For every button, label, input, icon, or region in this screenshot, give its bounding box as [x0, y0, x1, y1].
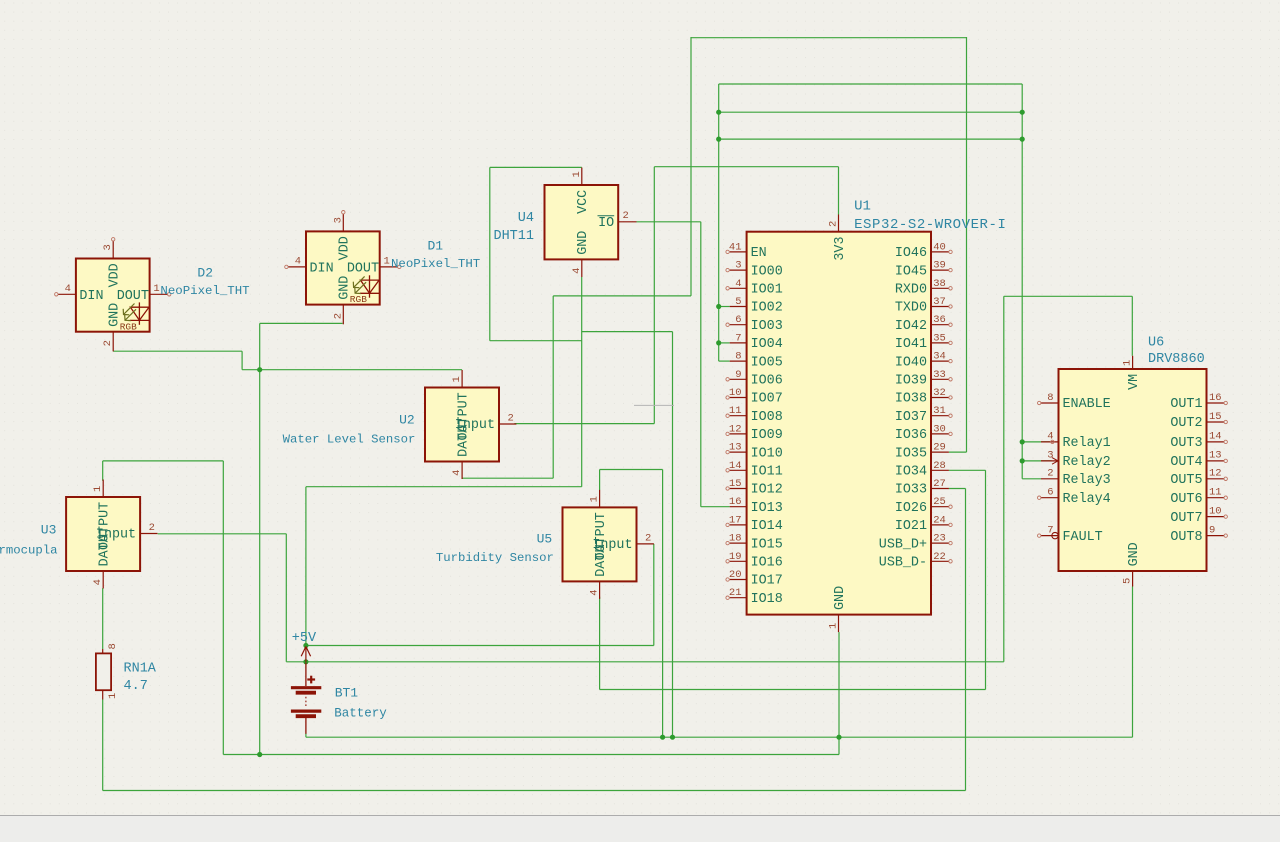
U6 pin 1 VM: [1132, 356, 1134, 369]
svg-text:18: 18: [729, 533, 742, 545]
U1 pin 40 IO46: [931, 251, 949, 253]
svg-text:DIN: DIN: [79, 289, 103, 304]
IC U2 body: [425, 388, 499, 462]
wire: U4 IO horizontal y=221.8: [637, 221, 701, 223]
svg-text:4: 4: [1047, 431, 1053, 443]
wire: vertical x=672.5 GND: [672, 332, 674, 738]
D2 emission arrows: [123, 304, 136, 321]
wire: U4 GND vertical x=581.7: [581, 277, 583, 487]
U1 pin 35 IO41: [931, 342, 949, 344]
svg-text:6: 6: [1047, 487, 1053, 499]
svg-text:20: 20: [729, 569, 742, 581]
svg-text:IO09: IO09: [751, 428, 783, 443]
D2 pin 2 GND: [112, 332, 114, 352]
svg-text:U3: U3: [41, 522, 57, 537]
U1 pin 15 IO12: [730, 488, 747, 490]
wire: +5V/VM vertical x=1003.8: [1003, 296, 1005, 662]
IC U4 DHT11 body: [545, 185, 619, 259]
svg-text:9: 9: [1209, 524, 1215, 536]
svg-text:1: 1: [384, 255, 390, 267]
wire: GND horizontal y=754.5: [223, 754, 839, 756]
junction Relay2: [1020, 458, 1025, 463]
junction x1022 y139: [1020, 137, 1025, 142]
U1 pin 10 IO07: [730, 397, 747, 399]
U6 pin 6 Relay4: [1041, 497, 1059, 499]
wire: U1 IO02 stub wire: [719, 306, 730, 308]
wire: horizontal y=295.9: [553, 295, 691, 297]
U6 pin 16 OUT1: [1207, 402, 1225, 404]
svg-text:14: 14: [729, 460, 742, 472]
junction IO02: [716, 304, 721, 309]
U1 pin 1 GND: [838, 615, 840, 633]
svg-text:30: 30: [933, 423, 946, 435]
svg-text:IO14: IO14: [751, 519, 783, 534]
svg-text:IO18: IO18: [751, 592, 783, 607]
svg-text:VDD: VDD: [108, 263, 123, 287]
svg-text:DIN: DIN: [310, 261, 334, 276]
svg-text:4: 4: [295, 255, 301, 267]
wire: vertical x=1022.2: [1021, 84, 1023, 479]
svg-text:DRV8860: DRV8860: [1148, 352, 1205, 367]
svg-text:OUT7: OUT7: [1170, 511, 1202, 526]
svg-text:3: 3: [332, 217, 344, 223]
svg-text:15: 15: [729, 478, 742, 490]
D1 pin 3 VDD: [342, 214, 344, 232]
wire: U1 IO13 wire y=506.7: [701, 506, 730, 508]
IC U6 DRV8860 body: [1059, 369, 1207, 571]
svg-text:IO46: IO46: [895, 246, 927, 261]
svg-text:OUT1: OUT1: [1170, 397, 1202, 412]
svg-text:Water Level Sensor: Water Level Sensor: [283, 432, 416, 446]
svg-text:IO17: IO17: [751, 574, 783, 589]
wire: battery GND horizontal y=737.2: [306, 736, 1133, 738]
svg-text:IO01: IO01: [751, 283, 783, 298]
U1 pin 5 IO02: [730, 306, 747, 308]
svg-text:7: 7: [735, 332, 741, 344]
U4 pin 2 IO: [618, 221, 636, 223]
svg-text:Relay4: Relay4: [1063, 492, 1111, 507]
svg-text:36: 36: [933, 314, 946, 326]
U6 Relay2 pin arrow: [1052, 458, 1058, 465]
svg-text:1: 1: [1122, 360, 1134, 366]
svg-text:Input: Input: [96, 528, 136, 543]
battery BT1 symbol: [291, 663, 321, 734]
svg-text:IO34: IO34: [895, 465, 927, 480]
svg-text:VCC: VCC: [576, 190, 591, 214]
svg-text:DOUT: DOUT: [347, 261, 379, 276]
wire: bus horizontal y=139.1: [719, 138, 1023, 140]
svg-text:2: 2: [623, 210, 629, 222]
svg-text:IO08: IO08: [751, 410, 783, 425]
svg-text:U4: U4: [518, 211, 534, 226]
U2 pin 4 DATA (bottom): [461, 462, 463, 480]
svg-text:8: 8: [107, 643, 119, 649]
bottom scrollbar strip: [0, 816, 1280, 842]
wire: horizontal y=469.5: [600, 469, 663, 471]
wire: vertical x=305.9 to +5V: [305, 487, 307, 646]
junction Relay1: [1020, 439, 1025, 444]
svg-text:12: 12: [1209, 468, 1222, 480]
U1 pin 9 IO06: [730, 378, 747, 380]
wire: U6 Relay2 wire: [1022, 460, 1051, 462]
U1 pin 30 IO36: [931, 433, 949, 435]
svg-text:1: 1: [153, 283, 159, 295]
svg-text:BT1: BT1: [335, 686, 359, 701]
U1 pin 3 IO00: [730, 269, 747, 271]
LED D1 NeoPixel_THT body: [306, 231, 380, 304]
U3 pin 1 OUTPUT (top): [102, 480, 104, 498]
svg-text:U5: U5: [537, 531, 553, 546]
wire: U1 IO35 pin wire: [949, 451, 967, 453]
svg-text:4: 4: [92, 579, 104, 585]
svg-text:16: 16: [729, 496, 742, 508]
svg-text:NeoPixel_THT: NeoPixel_THT: [160, 284, 249, 298]
svg-text:D1: D1: [428, 239, 444, 254]
svg-text:USB_D-: USB_D-: [879, 556, 927, 571]
svg-text:IO42: IO42: [895, 319, 927, 334]
svg-text:3: 3: [1047, 450, 1053, 462]
svg-text:IO40: IO40: [895, 355, 927, 370]
svg-text:Thermocupla: Thermocupla: [0, 544, 58, 558]
wire: horizontal y=486.7: [306, 486, 582, 488]
gray partial line: [634, 404, 674, 406]
svg-text:OUT2: OUT2: [1170, 416, 1202, 431]
U4 pin 4 GND: [581, 259, 583, 277]
D1 emission arrows: [353, 276, 366, 293]
U1 pin 6 IO03: [730, 324, 747, 326]
svg-text:15: 15: [1209, 411, 1222, 423]
U6 pin 15 OUT2: [1207, 421, 1225, 423]
svg-text:2: 2: [1047, 468, 1053, 480]
U6 Relay1 pin circle: [1051, 440, 1054, 443]
svg-text:IO11: IO11: [751, 465, 783, 480]
svg-text:3V3: 3V3: [833, 237, 848, 261]
wire: U2 pin4 horizontal y=478.2: [462, 477, 553, 479]
U1 pin 41 EN: [730, 251, 747, 253]
svg-text:IO39: IO39: [895, 374, 927, 389]
svg-text:IO03: IO03: [751, 319, 783, 334]
svg-text:OUT4: OUT4: [1170, 455, 1202, 470]
U5 pin 2 Input (right): [637, 543, 654, 545]
svg-text:33: 33: [933, 369, 946, 381]
U6 pin 3 Relay2: [1041, 460, 1059, 462]
LED D2 NeoPixel_THT body: [76, 259, 150, 332]
U6 pin 12 OUT5: [1207, 478, 1225, 480]
wire: +5V to U5 horizontal y=645.5: [306, 645, 654, 647]
svg-text:RGB: RGB: [350, 294, 367, 305]
U1 pin 21 IO18: [730, 597, 747, 599]
svg-text:5: 5: [735, 296, 741, 308]
wire: vertical x=718.7: [718, 84, 720, 361]
U1 pin 14 IO11: [730, 469, 747, 471]
U1 pin 39 IO45: [931, 269, 949, 271]
U6 pin 5 GND: [1132, 571, 1134, 587]
svg-text:4: 4: [735, 278, 741, 290]
U1 pin 16 IO13: [730, 506, 747, 508]
svg-text:2: 2: [149, 522, 155, 534]
wire: bottom horizontal y=790.5: [103, 790, 966, 792]
svg-text:ESP32-S2-WROVER-I: ESP32-S2-WROVER-I: [854, 217, 1006, 233]
U5 pin 1 OUTPUT (top): [599, 490, 601, 508]
IC U3 body: [66, 497, 140, 571]
wire: +5V horizontal y=661.8: [286, 661, 1004, 663]
svg-text:28: 28: [933, 460, 946, 472]
wire: horizontal y=340.7: [490, 340, 582, 342]
D2 pin 4 DIN: [58, 293, 76, 295]
svg-text:IO37: IO37: [895, 410, 927, 425]
svg-text:41: 41: [729, 241, 742, 253]
svg-text:IO16: IO16: [751, 556, 783, 571]
wire: vertical x=223.3: [222, 461, 224, 755]
wire: U6 Relay3 wire: [1022, 478, 1041, 480]
svg-text:FAULT: FAULT: [1063, 530, 1103, 545]
U4 pin 1 VCC: [581, 168, 583, 186]
U1 pin 24 IO21: [931, 524, 949, 526]
wire: U6 VM vertical x=1132.3: [1131, 296, 1133, 356]
junction D-GND top: [257, 367, 262, 372]
svg-text:GND: GND: [1127, 542, 1142, 566]
svg-text:3: 3: [102, 244, 114, 250]
svg-text:IO45: IO45: [895, 264, 927, 279]
U1 pin 25 IO26: [931, 506, 949, 508]
svg-text:11: 11: [1209, 487, 1222, 499]
wire: U1 IO05 stub wire: [719, 360, 730, 362]
svg-text:OUT3: OUT3: [1170, 436, 1202, 451]
svg-text:RGB: RGB: [120, 321, 137, 332]
svg-text:1: 1: [571, 171, 583, 177]
svg-text:OUT5: OUT5: [1170, 473, 1202, 488]
junction x1022 y112: [1020, 110, 1025, 115]
svg-text:9: 9: [735, 369, 741, 381]
svg-text:16: 16: [1209, 392, 1222, 404]
svg-text:2: 2: [102, 340, 114, 346]
svg-text:TXD0: TXD0: [895, 301, 927, 316]
svg-text:10: 10: [1209, 505, 1222, 517]
wire: U4 VCC horizontal y=167.4: [490, 166, 582, 168]
U2 pin 2 Input (right): [499, 423, 516, 425]
svg-text:Turbidity Sensor: Turbidity Sensor: [436, 551, 554, 565]
svg-text:10: 10: [729, 387, 742, 399]
svg-text:1: 1: [92, 486, 104, 492]
U1 pin 33 IO39: [931, 378, 949, 380]
D1 pin 1 DOUT: [380, 266, 398, 268]
svg-text:11: 11: [729, 405, 742, 417]
svg-text:6: 6: [735, 314, 741, 326]
svg-text:4: 4: [571, 268, 583, 274]
svg-text:NeoPixel_THT: NeoPixel_THT: [391, 257, 480, 271]
svg-text:2: 2: [508, 413, 514, 425]
U6 pin 14 OUT3: [1207, 441, 1225, 443]
wire: vertical x=700.8: [700, 222, 702, 507]
RN1A pin 1: [102, 690, 104, 699]
svg-text:4: 4: [65, 283, 71, 295]
U6 pin 7 FAULT: [1041, 535, 1059, 537]
wire: vertical x=553.2: [552, 296, 554, 478]
wire: U1 GND vertical x=839: [838, 632, 840, 754]
U1 pin 27 IO33: [931, 488, 949, 490]
U1 pin 20 IO17: [730, 579, 747, 581]
wire: U1 3V3 vertical x=838.5: [838, 167, 840, 215]
wire: D-GND vertical x=259.7: [259, 323, 261, 754]
wire: horizontal y=296.3: [1004, 295, 1133, 297]
IC U5 body: [563, 507, 637, 581]
svg-text:37: 37: [933, 296, 946, 308]
U3 pin 4 DATA (bottom): [102, 571, 104, 589]
wire: D1 GND horizontal y=323.4: [260, 322, 343, 324]
D2 pin 1 DOUT: [150, 293, 168, 295]
U1 pin 38 RXD0: [931, 287, 949, 289]
svg-text:1: 1: [828, 623, 840, 629]
wire: U1 IO04 stub wire: [719, 342, 730, 344]
wire: vertical x=966.5 upper: [966, 37, 968, 452]
svg-text:22: 22: [933, 551, 946, 563]
svg-text:IO15: IO15: [751, 537, 783, 552]
wire: U1 IO34 pin wire: [949, 469, 986, 471]
svg-text:IO35: IO35: [895, 446, 927, 461]
IC U1 ESP32-S2-WROVER-I body: [747, 232, 931, 615]
U6 pin 13 OUT4: [1207, 460, 1225, 462]
U1 pin 13 IO10: [730, 451, 747, 453]
U1 pin 29 IO35: [931, 451, 949, 453]
D1 pin 4 DIN: [288, 266, 306, 268]
junction gnd a: [660, 735, 665, 740]
svg-text:14: 14: [1209, 431, 1222, 443]
wire: horizontal y=331.6: [582, 331, 673, 333]
wire: horizontal y=460.9: [103, 460, 224, 462]
U5 pin 4 DATA (bottom): [599, 581, 601, 599]
U1 pin 19 IO16: [730, 560, 747, 562]
svg-text:8: 8: [1047, 392, 1053, 404]
wire: U6 Relay1 wire: [1022, 441, 1050, 443]
U6 pin 11 OUT6: [1207, 497, 1225, 499]
junction D-GND bottom: [257, 752, 262, 757]
svg-text:IO21: IO21: [895, 519, 927, 534]
junction gnd b: [670, 735, 675, 740]
wire: U5 pin4 vertical: [599, 597, 601, 690]
wire: U3 pin2 horizontal y=533.8: [158, 533, 287, 535]
svg-text:Relay1: Relay1: [1063, 436, 1111, 451]
wire: horizontal y=689.5: [600, 689, 986, 691]
svg-text:IO: IO: [598, 216, 614, 231]
svg-text:IO13: IO13: [751, 501, 783, 516]
svg-text:RN1A: RN1A: [124, 662, 157, 677]
svg-text:Input: Input: [592, 538, 632, 553]
U1 pin 28 IO34: [931, 469, 949, 471]
wire: jog vertical x=242.1: [241, 351, 243, 370]
wire: vertical x=653.8 U5 pin2: [653, 544, 655, 646]
svg-text:ENABLE: ENABLE: [1063, 397, 1111, 412]
svg-text:21: 21: [729, 587, 742, 599]
wire: U1 IO33 vertical x=965.5: [965, 489, 967, 791]
svg-text:32: 32: [933, 387, 946, 399]
U6 FAULT inversion bubble: [1052, 532, 1058, 538]
U3 pin 2 Input (right): [140, 533, 157, 535]
svg-text:39: 39: [933, 260, 946, 272]
svg-text:Input: Input: [455, 418, 495, 433]
svg-text:34: 34: [933, 351, 946, 363]
svg-text:1: 1: [589, 496, 601, 502]
wire: U6 GND vertical x=1132.5: [1132, 587, 1134, 738]
wire: vertical x=691: [690, 37, 692, 296]
wire: U2 pin2 horizontal y=423.6: [514, 423, 654, 425]
wire: vertical x=662.6: [662, 470, 664, 738]
wire: top 3V3/net horizontal y=37.7: [691, 37, 967, 39]
svg-text:38: 38: [933, 278, 946, 290]
junction x718 y139: [716, 137, 721, 142]
U1 pin 4 IO01: [730, 287, 747, 289]
U1 pin 12 IO09: [730, 433, 747, 435]
svg-text:IO33: IO33: [895, 483, 927, 498]
svg-text:1: 1: [451, 376, 463, 382]
D2 pin 3 VDD: [112, 241, 114, 259]
svg-text:IO12: IO12: [751, 483, 783, 498]
U6 pin 9 OUT8: [1207, 535, 1225, 537]
svg-text:U6: U6: [1148, 336, 1164, 351]
svg-text:IO02: IO02: [751, 301, 783, 316]
svg-text:Relay3: Relay3: [1063, 473, 1111, 488]
svg-text:4: 4: [451, 470, 463, 476]
svg-text:17: 17: [729, 514, 742, 526]
svg-text:DOUT: DOUT: [117, 289, 149, 304]
svg-text:EN: EN: [751, 246, 767, 261]
U1 pin 18 IO15: [730, 542, 747, 544]
U1 pin 34 IO40: [931, 360, 949, 362]
svg-text:2: 2: [332, 313, 344, 319]
svg-text:2: 2: [645, 532, 651, 544]
svg-text:7: 7: [1047, 524, 1053, 536]
svg-text:23: 23: [933, 533, 946, 545]
U6 pin 4 Relay1: [1041, 441, 1059, 443]
svg-text:IO00: IO00: [751, 264, 783, 279]
U1 pin 36 IO42: [931, 324, 949, 326]
svg-text:VM: VM: [1127, 374, 1142, 390]
svg-text:13: 13: [1209, 450, 1222, 462]
svg-text:4.7: 4.7: [124, 679, 148, 694]
svg-text:12: 12: [729, 423, 742, 435]
junction +5V top: [303, 643, 308, 648]
svg-text:27: 27: [933, 478, 946, 490]
wire: U1 IO34 vertical x=985.5: [985, 470, 987, 689]
svg-text:2: 2: [828, 221, 840, 227]
U1 pin 8 IO05: [730, 360, 747, 362]
svg-text:IO06: IO06: [751, 374, 783, 389]
U2 pin 1 OUTPUT (top): [461, 370, 463, 388]
wire: horizontal y=369.7 to U2 pin1: [242, 369, 462, 371]
svg-text:OUT6: OUT6: [1170, 492, 1202, 507]
svg-text:24: 24: [933, 514, 946, 526]
svg-text:29: 29: [933, 442, 946, 454]
wire: U3 pin4 vertical: [102, 588, 104, 649]
U6 pin 2 Relay3: [1041, 478, 1059, 480]
svg-text:5: 5: [1122, 578, 1134, 584]
junction x718 y112: [716, 110, 721, 115]
RN1A pin 8: [102, 649, 104, 653]
svg-text:IO38: IO38: [895, 392, 927, 407]
svg-text:IO04: IO04: [751, 337, 783, 352]
junction +5V bottom: [303, 659, 308, 664]
U1 pin 22 USB_D-: [931, 560, 949, 562]
wire: U3 pin1 vertical: [102, 461, 104, 481]
svg-text:IO41: IO41: [895, 337, 927, 352]
U1 pin 31 IO37: [931, 415, 949, 417]
svg-text:USB_D+: USB_D+: [879, 537, 927, 552]
svg-text:4: 4: [589, 589, 601, 595]
svg-text:Relay2: Relay2: [1063, 455, 1111, 470]
U1 pin 11 IO08: [730, 415, 747, 417]
svg-text:40: 40: [933, 241, 946, 253]
junction U1 GND: [836, 735, 841, 740]
D2 LED symbol: [130, 302, 149, 324]
